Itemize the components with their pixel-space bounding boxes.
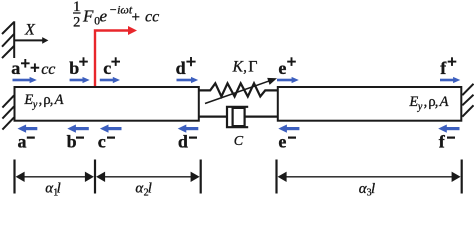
svg-text:f: f: [439, 132, 446, 152]
svg-text:,: ,: [243, 60, 247, 76]
svg-text:,: ,: [435, 94, 439, 110]
svg-text:l: l: [371, 181, 375, 197]
svg-text:X: X: [24, 22, 36, 39]
svg-text:c: c: [98, 132, 106, 152]
svg-text:l: l: [57, 181, 61, 197]
svg-text:,: ,: [39, 92, 43, 108]
svg-text:+: +: [132, 10, 140, 26]
svg-text:K: K: [232, 59, 244, 76]
svg-text:d: d: [176, 58, 186, 78]
svg-text:cc: cc: [41, 61, 55, 78]
svg-text:d: d: [178, 132, 188, 152]
svg-text:y: y: [417, 102, 423, 113]
svg-text:E: E: [408, 94, 418, 110]
svg-text:b: b: [69, 58, 79, 78]
svg-text:E: E: [23, 92, 33, 108]
svg-text:A: A: [439, 94, 449, 110]
svg-text:,: ,: [424, 94, 428, 110]
svg-text:cc: cc: [145, 9, 159, 26]
svg-text:a: a: [11, 58, 20, 78]
svg-text:2: 2: [73, 14, 80, 30]
svg-text:Γ: Γ: [248, 59, 257, 76]
svg-text:a: a: [18, 132, 27, 152]
svg-text:c: c: [103, 58, 111, 78]
svg-text:b: b: [67, 132, 77, 152]
svg-text:F: F: [82, 7, 94, 26]
svg-text:y: y: [32, 100, 38, 111]
svg-text:f: f: [440, 58, 447, 78]
svg-text:−iωt: −iωt: [109, 3, 133, 17]
svg-text:C: C: [234, 134, 244, 149]
svg-text:A: A: [54, 92, 64, 108]
svg-text:l: l: [148, 181, 152, 197]
svg-text:,: ,: [50, 92, 54, 108]
svg-text:e: e: [278, 132, 286, 152]
svg-text:e: e: [100, 7, 108, 26]
svg-text:e: e: [278, 58, 286, 78]
